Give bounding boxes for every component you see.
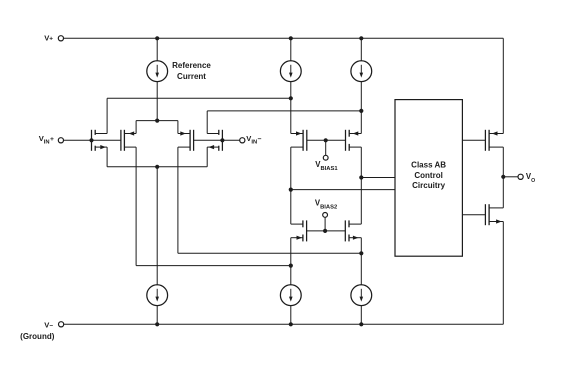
terminal VIN+	[58, 138, 63, 143]
junction ground rail / I5	[289, 322, 293, 326]
terminal V- (ground)	[59, 322, 64, 327]
wire V+ rail to output PMOS source (right drop)	[502, 38, 504, 133]
current source I4	[147, 285, 168, 306]
wire I6 to ground rail	[360, 306, 362, 325]
current source I1 (reference current)	[147, 61, 168, 82]
terminal VIN-	[240, 138, 245, 143]
junction right cascode branch / M4 fold	[359, 109, 363, 113]
wire VBIAS1 stub	[325, 140, 327, 155]
wire left branch M7 source to I5	[290, 238, 292, 285]
wire M4 source down to NMOS-pair tail rail	[206, 147, 208, 167]
label V-	[44, 320, 53, 329]
current source I3	[351, 61, 372, 82]
junction VIN+ wire / M1 gate	[89, 138, 93, 142]
wire V- ground rail	[64, 323, 504, 325]
wire NMOS-pair tail rail	[107, 166, 207, 168]
terminal VBIAS1	[323, 155, 328, 160]
junction top rail / right cascode branch	[359, 36, 363, 40]
wire M1 drain fold to left cascode branch	[107, 98, 291, 133]
wire Class AB input from right branch	[361, 177, 395, 179]
wire V+ top rail	[63, 37, 503, 39]
wire I5 to ground rail	[290, 306, 292, 325]
wire top rail to I1	[156, 38, 158, 61]
wire top rail to I2	[290, 38, 292, 61]
wire right branch M8 source to I6	[360, 238, 362, 285]
junction left branch / M2 fold	[289, 264, 293, 268]
transistor M10 (output NMOS)	[485, 204, 503, 225]
current source I5	[280, 285, 301, 306]
transistor M7 (cascode NMOS left, VBIAS2)	[291, 220, 307, 241]
wire I3 to cascode M6 source	[360, 82, 362, 134]
transistor M4 (input right outer)	[207, 130, 222, 151]
junction left cascode branch / M1 fold	[289, 96, 293, 100]
junction left branch to Class AB input	[289, 188, 293, 192]
wire tail node to M2/M3 drains	[136, 121, 178, 134]
svg-text:Circuitry: Circuitry	[412, 181, 445, 190]
svg-text:(Ground): (Ground)	[20, 332, 55, 341]
transistor M3 (input right inner)	[178, 130, 194, 151]
wire M10 source to ground rail	[502, 222, 504, 325]
wire VBIAS1 gate line	[307, 139, 346, 141]
wire Class AB output to M9 gate	[462, 139, 485, 141]
junction ground rail / I4	[155, 322, 159, 326]
label Reference Current	[172, 61, 211, 81]
label VIN-	[246, 134, 261, 146]
svg-text:Reference: Reference	[172, 61, 211, 70]
svg-text:Current: Current	[177, 72, 206, 81]
wire VBIAS2 gate line	[307, 230, 346, 232]
junction top rail / reference branch	[155, 36, 159, 40]
junction output node	[501, 175, 505, 179]
wire M2 source fold down-left branch	[136, 147, 291, 266]
svg-text:Control: Control	[414, 171, 442, 180]
block Class AB Control Circuitry	[395, 100, 462, 257]
terminal VO	[518, 174, 523, 179]
junction VBIAS2 gate line	[323, 229, 327, 233]
current source I6	[351, 285, 372, 306]
wire I2 to cascode M5 source	[290, 82, 292, 134]
label Class AB Control Circuitry	[411, 161, 446, 191]
wire I4 to ground rail	[156, 306, 158, 325]
junction ground rail / I6	[359, 322, 363, 326]
terminal VBIAS2	[323, 213, 328, 218]
wire M1 source down to NMOS-pair tail rail	[106, 147, 108, 167]
wire M9 drain to output node	[502, 147, 504, 177]
label VBIAS2	[315, 198, 337, 210]
label VO	[526, 172, 535, 184]
terminal V+	[58, 36, 63, 41]
junction right branch to Class AB input	[359, 175, 363, 179]
wire output node to VO terminal	[503, 176, 518, 178]
label (Ground)	[20, 332, 55, 341]
junction top rail / left cascode branch	[289, 36, 293, 40]
wire left branch M5 drain down to M7 drain	[290, 147, 292, 224]
wire M3 source fold down-right branch	[178, 147, 361, 253]
svg-text:V−: V−	[44, 320, 53, 329]
wire I1 to PMOS pair tail node	[156, 82, 158, 121]
wire top rail to I3	[360, 38, 362, 61]
wire M10 drain to output node	[502, 177, 504, 208]
wire M4 drain fold to right cascode branch	[207, 111, 361, 134]
current source I2	[280, 61, 301, 82]
wire tail node to I4	[156, 167, 158, 285]
wire VBIAS2 stub	[324, 217, 326, 231]
junction VIN- wire / M4 gate	[220, 138, 224, 142]
label VIN+	[39, 134, 54, 146]
svg-text:Class AB: Class AB	[411, 161, 446, 170]
wire Class AB input from left branch	[291, 189, 395, 191]
wire VIN- to gates of M3 and M4	[194, 139, 240, 141]
transistor M2 (input left inner)	[121, 130, 136, 151]
node PMOS-pair tail (junction)	[155, 119, 159, 123]
transistor M6 (cascode PMOS right, VBIAS1)	[346, 130, 362, 151]
transistor M1 (input left outer)	[92, 130, 108, 151]
junction right branch / M3 fold	[359, 251, 363, 255]
node NMOS-pair tail (junction)	[155, 165, 159, 169]
wire Class AB output to M10 gate	[462, 214, 485, 216]
wire right branch M6 drain down to M8 drain	[360, 147, 362, 224]
label VBIAS1	[315, 160, 338, 172]
transistor M8 (cascode NMOS right, VBIAS2)	[345, 220, 361, 241]
wire VIN+ to gates of M1 and M2	[63, 139, 121, 141]
junction VBIAS1 gate line	[324, 138, 328, 142]
transistor M5 (cascode PMOS left, VBIAS1)	[291, 130, 307, 151]
svg-text:V+: V+	[44, 34, 53, 43]
transistor M9 (output PMOS)	[485, 130, 503, 151]
label V+	[44, 34, 53, 43]
